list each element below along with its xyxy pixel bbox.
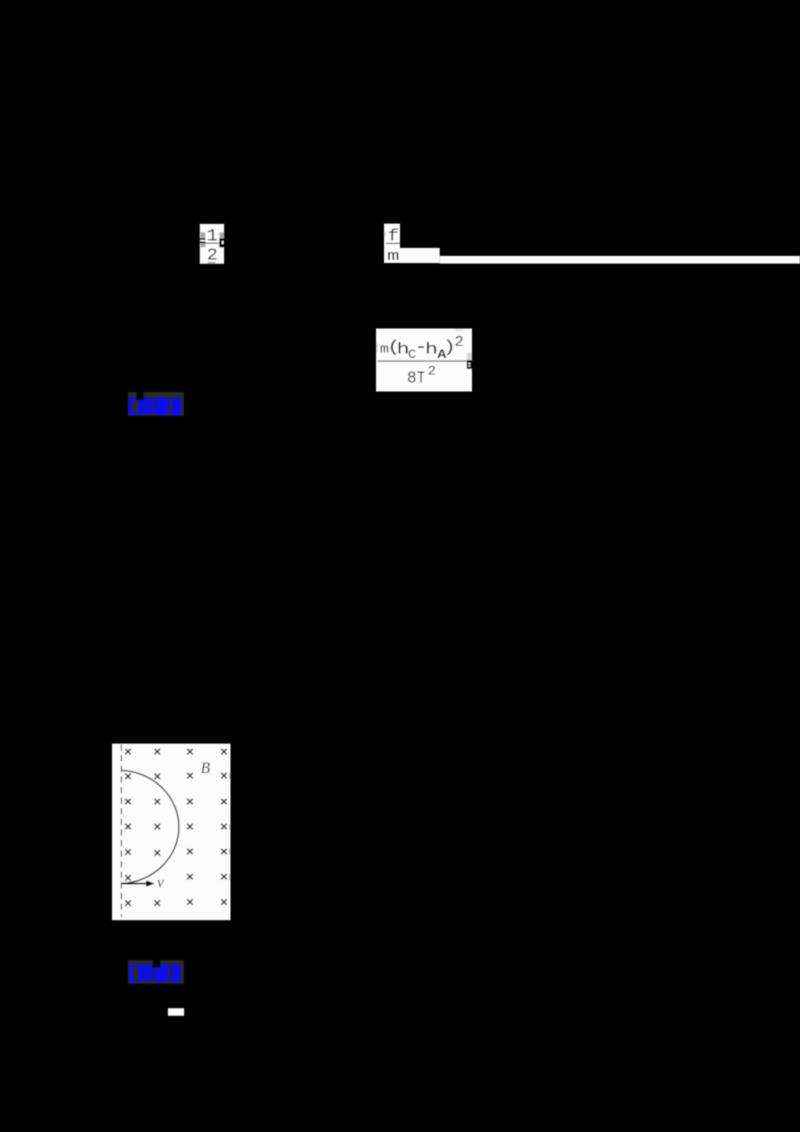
long highlight strip to right edge [440, 256, 800, 264]
fraction bar of one-half [205, 242, 220, 245]
analysis label black notch [153, 960, 161, 967]
cursor block right of one-half [219, 238, 224, 247]
highlight strip after f over m [400, 248, 440, 263]
svg-text:m: m [387, 248, 399, 265]
analysis label blue text [129, 964, 180, 982]
field mark r4c3 [187, 824, 193, 830]
main fraction bar [378, 360, 467, 362]
svg-text:T: T [417, 368, 425, 387]
minus sign [418, 346, 424, 348]
answer label highlight block [128, 392, 184, 416]
answer label blue text [128, 397, 180, 416]
cursor block right of formula box [467, 360, 472, 369]
clipped field marks at right edge [229, 773, 230, 880]
field mark r5c2 [155, 850, 161, 856]
field mark r1c3 [187, 749, 193, 755]
field mark r6c4 [221, 874, 227, 880]
fraction bar of f over m [386, 243, 400, 244]
field mark r3c1 [125, 799, 131, 805]
svg-text:B: B [201, 760, 211, 777]
semicircular particle path [121, 770, 178, 883]
field mark r6c3 [187, 874, 193, 880]
svg-text:8: 8 [407, 369, 417, 388]
small white block [168, 1008, 184, 1016]
field mark r7c4 [221, 899, 227, 905]
equals sign [200, 238, 206, 243]
svg-text:2: 2 [428, 364, 436, 379]
field mark r3c3 [187, 799, 193, 805]
formula box: equals one-half [200, 224, 224, 264]
formula box: m(hC-hA)^2 over 8T^2 [376, 329, 472, 392]
velocity arrow shaft [121, 883, 146, 885]
field mark r2c3 [187, 773, 193, 779]
svg-text:2: 2 [454, 335, 464, 351]
analysis label inner gaps [140, 967, 173, 976]
field mark r1c1 [125, 749, 131, 755]
svg-text:h: h [425, 340, 438, 358]
field mark r7c1 [125, 900, 131, 906]
scrollbar nub right of formula box [467, 353, 472, 360]
answer label black notch [136, 392, 143, 400]
field mark r2c2 [155, 774, 161, 780]
field mark r4c4 [221, 824, 227, 830]
field mark r6c1 [125, 875, 131, 881]
field mark r7c3 [187, 899, 193, 905]
svg-text:v: v [157, 875, 164, 891]
field mark r2c4 [221, 773, 227, 779]
analysis label highlight block [128, 960, 184, 984]
field mark r2c1 [125, 774, 131, 780]
field mark r5c1 [125, 849, 131, 855]
physics diagram: magnetic field region [112, 744, 231, 921]
field mark r7c2 [154, 900, 160, 906]
field mark r3c4 [221, 799, 227, 805]
field mark r4c2 [155, 824, 161, 830]
field mark r3c2 [155, 799, 161, 805]
field mark r1c2 [155, 749, 161, 755]
velocity arrow head [146, 880, 155, 887]
field mark r4c1 [125, 824, 131, 830]
svg-text:2: 2 [207, 247, 218, 266]
field mark r1c4 [221, 749, 227, 755]
answer label inner gaps [140, 401, 173, 410]
formula box: f over m [384, 224, 400, 263]
field mark r5c4 [221, 849, 227, 855]
dashed boundary line [120, 745, 122, 917]
field mark r5c3 [187, 849, 193, 855]
svg-text:C: C [408, 347, 416, 362]
